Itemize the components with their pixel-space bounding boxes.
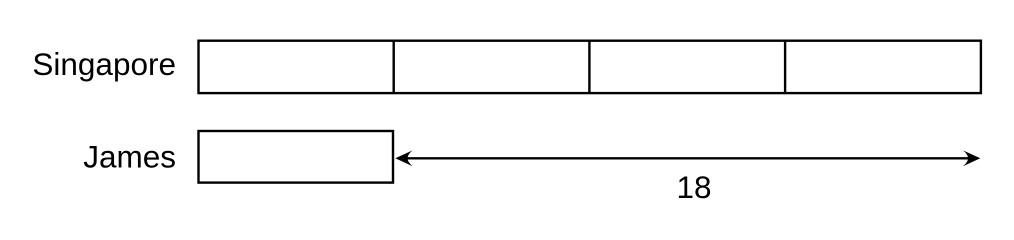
- bar Singapore (4 units): [199, 41, 981, 93]
- arrow shaft: [405, 157, 970, 159]
- svg-text:James: James: [83, 138, 176, 174]
- divider 2: [588, 41, 590, 93]
- divider 3: [784, 41, 786, 93]
- svg-text:18: 18: [676, 169, 711, 205]
- arrowhead left: [395, 150, 412, 166]
- divider 1: [393, 41, 395, 93]
- svg-text:Singapore: Singapore: [32, 46, 176, 82]
- bar James (1 unit): [199, 131, 394, 183]
- arrowhead right: [963, 150, 980, 166]
